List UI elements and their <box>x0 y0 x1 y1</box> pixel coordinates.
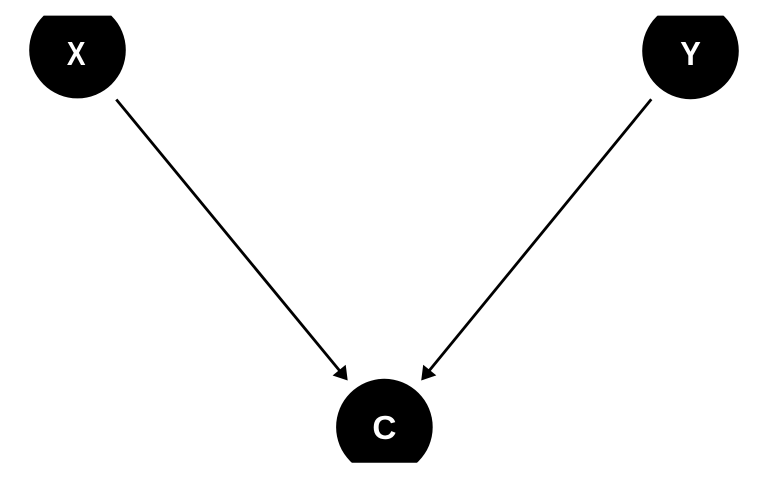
svg-text:X: X <box>67 36 86 73</box>
node Y <box>642 3 739 100</box>
svg-text:C: C <box>372 410 396 447</box>
edge X->C wire <box>116 100 341 373</box>
label C <box>372 410 396 447</box>
node C <box>336 379 433 476</box>
arrowhead Y->C <box>421 365 436 381</box>
edge Y->C wire <box>428 99 652 372</box>
label X <box>67 36 86 73</box>
node X <box>29 2 126 99</box>
label Y <box>680 35 701 72</box>
svg-text:Y: Y <box>680 35 701 72</box>
arrowhead X->C <box>333 365 348 381</box>
